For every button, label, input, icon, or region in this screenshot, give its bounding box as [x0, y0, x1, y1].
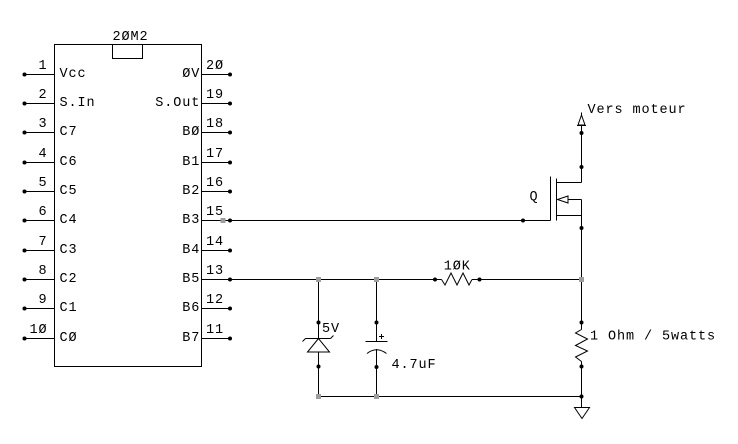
svg-text:B4: B4	[182, 243, 200, 258]
zener D1 anode triangle	[308, 339, 330, 353]
svg-text:8: 8	[38, 264, 47, 279]
svg-text:17: 17	[206, 147, 224, 162]
svg-text:6: 6	[38, 205, 47, 220]
node zener terminals	[317, 321, 321, 325]
resistor R1 10K zigzag	[442, 273, 473, 285]
pin 18 wire	[202, 132, 231, 134]
node pin 10 end dot	[23, 337, 27, 341]
node pin 13 end dot	[228, 278, 232, 282]
svg-text:Q: Q	[530, 190, 539, 205]
svg-text:4: 4	[38, 147, 47, 162]
capacitor C1 top plate	[366, 341, 388, 343]
resistor R2 1 Ohm zigzag	[576, 330, 588, 362]
node pin 16 end dot	[228, 190, 232, 194]
transistor Q gate bar	[550, 177, 552, 221]
pin 9 wire	[25, 308, 55, 310]
svg-text:1 Ohm / 5watts: 1 Ohm / 5watts	[590, 330, 716, 345]
ground symbol	[575, 408, 590, 419]
wire ground rail	[319, 396, 582, 398]
svg-text:B2: B2	[182, 184, 200, 199]
node R2 terminals	[580, 321, 584, 325]
svg-text:3: 3	[38, 117, 47, 132]
svg-text:7: 7	[38, 235, 47, 250]
svg-text:Vcc: Vcc	[60, 67, 87, 82]
svg-text:2ØM2: 2ØM2	[113, 30, 149, 45]
node pin 5 end dot	[23, 190, 27, 194]
svg-text:1Ø: 1Ø	[29, 323, 47, 338]
svg-text:Vers moteur: Vers moteur	[588, 103, 687, 118]
pin 13 wire / net B5	[202, 279, 436, 281]
zener D1 cathode bar	[306, 338, 331, 340]
node pin 3 end dot	[23, 131, 27, 135]
svg-text:15: 15	[206, 205, 224, 220]
pin 10 wire	[25, 338, 55, 340]
pin 8 wire	[25, 279, 55, 281]
svg-text:C5: C5	[60, 184, 78, 199]
wire ground stub	[581, 397, 583, 408]
svg-text:S.In: S.In	[60, 96, 96, 111]
node pin 2 end dot	[23, 102, 27, 106]
junction square zener top	[316, 277, 321, 282]
svg-text:C7: C7	[60, 125, 78, 140]
zener D1 cathode tails	[303, 339, 306, 342]
node pin 14 end dot	[228, 249, 232, 253]
transistor Q body stub	[568, 199, 582, 201]
svg-text:ØV: ØV	[182, 67, 200, 82]
pin 20 wire	[202, 74, 231, 76]
svg-text:19: 19	[206, 88, 224, 103]
pin 11 wire	[202, 338, 231, 340]
svg-text:12: 12	[206, 293, 224, 308]
wire capacitor branch bottom	[376, 349, 378, 397]
svg-text:14: 14	[206, 235, 224, 250]
wire 10K left stub	[435, 279, 442, 281]
svg-text:2: 2	[38, 88, 47, 103]
capacitor C1 plus sign	[379, 336, 384, 338]
svg-text:S.Out: S.Out	[155, 96, 200, 111]
svg-text:B7: B7	[182, 331, 200, 346]
pin 3 wire	[25, 132, 55, 134]
pin 1 wire	[25, 74, 55, 76]
node pin 7 end dot	[23, 249, 27, 253]
motor terminal arrow	[581, 113, 583, 116]
junction square on B3 wire	[221, 218, 226, 223]
node pin 19 end dot	[228, 102, 232, 106]
capacitor C1 curved plate	[367, 350, 387, 354]
pin 5 wire	[25, 191, 55, 193]
pin 16 wire	[202, 191, 231, 193]
junction square capacitor bottom	[374, 394, 379, 399]
wire capacitor branch top	[376, 280, 378, 342]
node pin 8 end dot	[23, 278, 27, 282]
transistor Q source stub	[557, 215, 582, 217]
svg-text:11: 11	[206, 323, 224, 338]
svg-text:2Ø: 2Ø	[206, 59, 224, 74]
node pin 11 end dot	[228, 337, 232, 341]
pin 2 wire	[25, 103, 55, 105]
junction square zener bottom	[316, 394, 321, 399]
node capacitor terminals	[375, 321, 379, 325]
junction square capacitor top	[374, 277, 379, 282]
pin 6 wire	[25, 220, 55, 222]
svg-text:1ØK: 1ØK	[444, 260, 471, 275]
svg-text:B3: B3	[182, 213, 200, 228]
svg-text:4.7uF: 4.7uF	[392, 358, 437, 373]
node pin 9 end dot	[23, 307, 27, 311]
pin 4 wire	[25, 162, 55, 164]
svg-text:CØ: CØ	[60, 331, 78, 346]
node pin 18 end dot	[228, 131, 232, 135]
svg-text:B5: B5	[182, 272, 200, 287]
wire source vertical down	[581, 200, 583, 330]
wire zener branch top	[318, 280, 320, 339]
pin 12 wire	[202, 308, 231, 310]
IC U1 20M2 body	[55, 45, 202, 367]
pin 7 wire	[25, 250, 55, 252]
node pin 12 end dot	[228, 307, 232, 311]
pin 14 wire	[202, 250, 231, 252]
svg-text:1: 1	[38, 59, 47, 74]
svg-text:B1: B1	[182, 155, 200, 170]
transistor Q drain stub	[557, 182, 582, 184]
pin 15 wire / net B3 to gate	[202, 220, 551, 222]
svg-text:C3: C3	[60, 243, 78, 258]
node pin 20 end dot	[228, 73, 232, 77]
svg-text:16: 16	[206, 176, 224, 191]
wire below resistor R2 to ground rail	[581, 362, 583, 397]
node pin 17 end dot	[228, 161, 232, 165]
junction square drain net	[579, 277, 584, 282]
svg-text:C6: C6	[60, 155, 78, 170]
svg-text:C4: C4	[60, 213, 78, 228]
node pin 4 end dot	[23, 161, 27, 165]
transistor Q channel bar	[556, 179, 558, 221]
transistor Q body arrow	[558, 196, 569, 203]
node motor wire dots	[580, 131, 584, 135]
svg-text:9: 9	[38, 293, 47, 308]
svg-text:C2: C2	[60, 272, 78, 287]
wire zener branch bottom	[318, 352, 320, 397]
svg-text:B6: B6	[182, 301, 200, 316]
svg-text:BØ: BØ	[182, 125, 200, 140]
svg-text:C1: C1	[60, 301, 78, 316]
node source dot	[580, 226, 584, 230]
wire 10K right to drain net	[472, 279, 582, 281]
pin 19 wire	[202, 103, 231, 105]
node R1 terminals	[433, 278, 437, 282]
node ground rail junction	[580, 395, 584, 399]
node pin 1 end dot	[23, 73, 27, 77]
node pin 6 end dot	[23, 219, 27, 223]
wire drain vertical to motor arrow	[581, 126, 583, 183]
svg-text:18: 18	[206, 117, 224, 132]
node gate terminal	[521, 219, 525, 223]
svg-text:13: 13	[206, 264, 224, 279]
pin 17 wire	[202, 162, 231, 164]
node pin 15 end dot	[228, 219, 232, 223]
IC notch	[113, 45, 143, 59]
svg-text:5: 5	[38, 176, 47, 191]
svg-text:5V: 5V	[322, 322, 340, 337]
